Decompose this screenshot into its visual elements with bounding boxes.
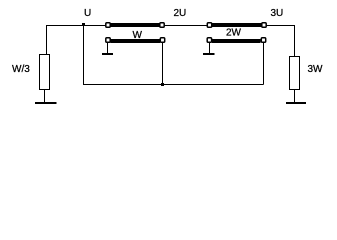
resistor bar top cell 2 (2U-3U) bbox=[212, 23, 262, 27]
svg-text:U: U bbox=[84, 8, 91, 19]
wire node U vertical to bottom bus bbox=[83, 25, 85, 85]
svg-text:2W: 2W bbox=[226, 28, 242, 39]
svg-text:W: W bbox=[133, 30, 143, 41]
resistor 3W body bbox=[290, 57, 300, 90]
terminal left of 2W bbox=[207, 38, 211, 42]
wire right drop to 3W bbox=[294, 25, 296, 57]
svg-text:3W: 3W bbox=[308, 64, 324, 75]
ground tap under W bbox=[102, 53, 113, 55]
terminal left of top bar 1 bbox=[106, 23, 110, 27]
junction dot node U bbox=[82, 23, 85, 26]
terminal right of top bar 1 bbox=[160, 23, 164, 27]
terminal left of top bar 2 bbox=[207, 23, 211, 27]
resistor bar 2W bbox=[212, 39, 261, 43]
resistor bar top cell 1 (U-2U) bbox=[111, 23, 160, 27]
svg-text:2U: 2U bbox=[174, 8, 187, 19]
terminal right of W bbox=[160, 38, 164, 42]
ground tap under 2W bbox=[203, 53, 215, 55]
wire 2W right end down to bus bbox=[263, 43, 265, 85]
svg-text:W/3: W/3 bbox=[12, 64, 30, 75]
ground under 3W bbox=[286, 102, 306, 104]
resistor W/3 body bbox=[40, 55, 50, 90]
ground under W/3 bbox=[35, 102, 57, 104]
svg-text:3U: 3U bbox=[271, 8, 284, 19]
wire W right end down to bus bbox=[162, 43, 164, 85]
terminal right of top bar 2 bbox=[262, 23, 266, 27]
terminal left of W bbox=[106, 38, 110, 42]
junction dot on bottom bus bbox=[161, 83, 164, 86]
resistor bar W bbox=[111, 39, 161, 43]
wire stub left of 2W down bbox=[209, 43, 211, 55]
wire top rail U..3U bbox=[46, 25, 295, 27]
terminal right of 2W bbox=[261, 38, 265, 42]
wire left drop to W/3 bbox=[46, 25, 48, 55]
wire stub left of W down bbox=[107, 43, 109, 55]
wire 3W bottom stub bbox=[294, 90, 296, 103]
wire bottom bus bbox=[83, 84, 264, 86]
wire W/3 bottom stub bbox=[44, 90, 46, 103]
